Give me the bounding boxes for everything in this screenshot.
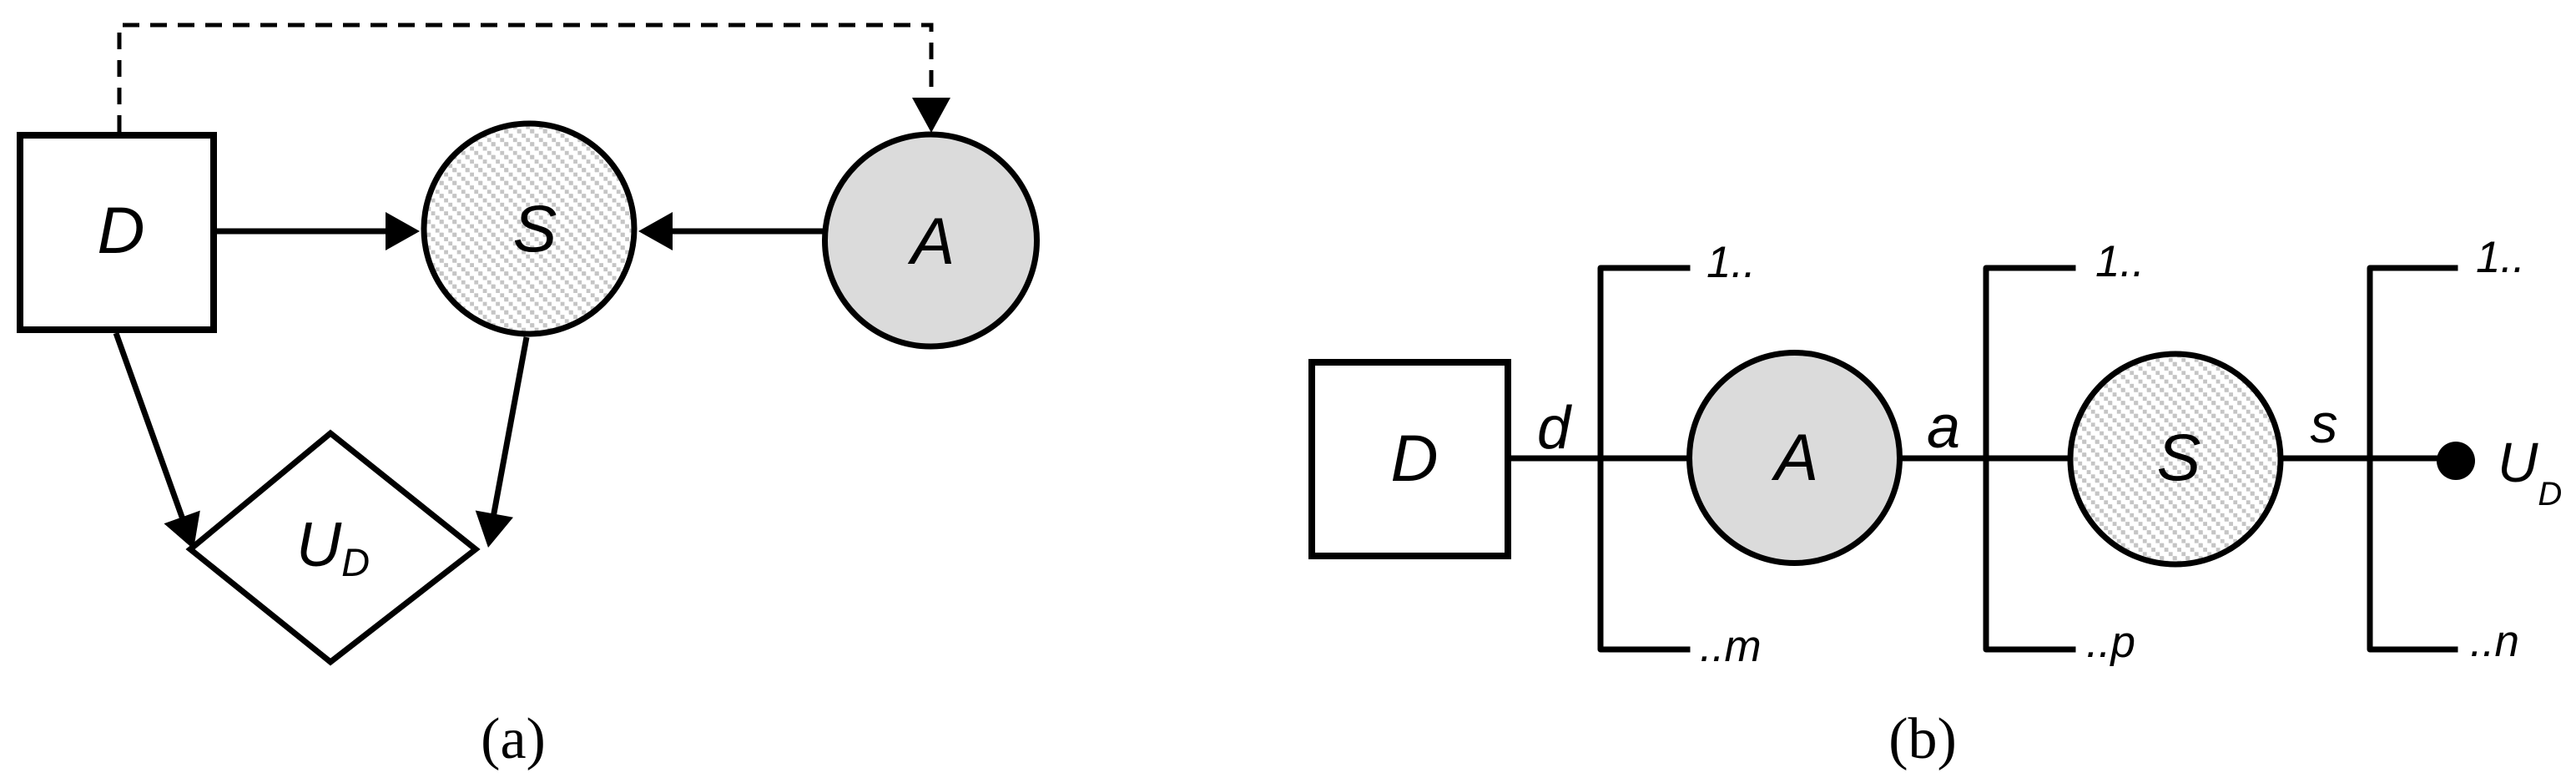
svg-text:1..: 1.. — [2095, 237, 2145, 286]
chance node S (b) hatched circle — [2070, 354, 2281, 564]
svg-text:S: S — [2157, 420, 2201, 494]
svg-text:(b): (b) — [1888, 707, 1957, 771]
chance node A (b) gray circle — [1690, 353, 1900, 563]
svg-text:..m: ..m — [1700, 622, 1762, 671]
svg-text:1..: 1.. — [1706, 238, 1756, 287]
svg-text:..n: ..n — [2470, 617, 2519, 666]
svg-text:..p: ..p — [2086, 618, 2135, 667]
svg-text:a: a — [1927, 394, 1960, 461]
arrowhead A to S — [638, 212, 673, 250]
arrowhead D to S — [386, 212, 420, 250]
wire D to S — [216, 229, 388, 235]
svg-text:D: D — [1390, 421, 1438, 495]
main relation wire (b) — [1511, 456, 2438, 462]
svg-text:s: s — [2311, 392, 2338, 454]
wire A to S — [670, 229, 824, 235]
utility node U_D (b) dot — [2437, 442, 2475, 480]
arrowhead S to U_D — [476, 511, 513, 548]
dashed arc D to A — [119, 25, 931, 132]
wire S to U_D — [493, 337, 527, 518]
arrowhead D to U_D — [164, 511, 200, 549]
decision node D (a) square — [20, 135, 214, 330]
multiplicity bracket 1 — [1601, 268, 1687, 649]
multiplicity bracket 2 — [1986, 268, 2073, 649]
multiplicity bracket 3 — [2370, 268, 2455, 649]
svg-text:A: A — [908, 204, 955, 278]
svg-text:S: S — [513, 191, 557, 265]
utility node U_D diamond — [190, 433, 476, 662]
svg-text:(a): (a) — [481, 707, 546, 771]
svg-text:d: d — [1537, 395, 1572, 462]
chance node S (a) hatched circle — [424, 124, 634, 334]
svg-text:1..: 1.. — [2476, 233, 2525, 282]
decision node D (b) square — [1312, 362, 1508, 556]
svg-text:A: A — [1772, 420, 1819, 494]
svg-text:D: D — [97, 193, 144, 267]
arrowhead dashed arc into A — [912, 98, 950, 133]
chance node A (a) gray circle — [825, 134, 1037, 346]
wire D to U_D — [116, 333, 183, 519]
